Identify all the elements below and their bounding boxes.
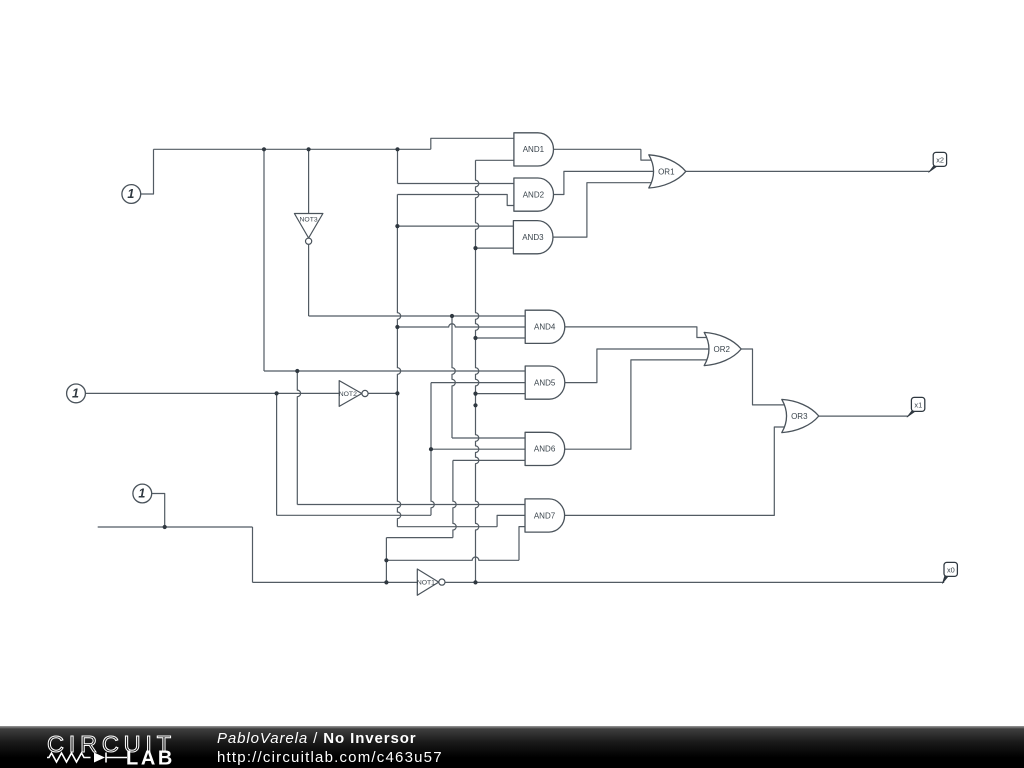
junction dot AND7-bot tap at (386.4,560.3) [384,558,388,562]
OR gate OR2 [704,332,741,365]
svg-text:x0: x0 [947,565,955,574]
svg-text:LAB: LAB [126,748,175,768]
footer bar [0,726,1024,768]
wire input3 rail y=527 [98,526,253,528]
wire top rail y=149 input1 [154,148,431,150]
junction dot NOT3 branch at (452,316) [450,314,454,318]
wire OR3 output to x1 [819,415,908,417]
wire AND7 bottom input feed [519,527,525,561]
svg-text:AND6: AND6 [534,445,556,454]
wire AND7 top input feed y=504 [297,504,525,506]
wire AND3 output [553,183,655,237]
junction dot AND4-mid tap at (397.4,327) [395,325,399,329]
wire riser to AND1 top input [431,138,514,149]
junction dot AND7 tap at (297.3,371) [295,369,299,373]
wire input1 drop to AND2 top input [397,149,399,183]
wire NOT3 output drop [308,244,310,316]
wire input2 riser x=431 [431,383,434,516]
svg-text:NOT3: NOT3 [300,217,318,224]
wire input3 run y=560 [386,557,519,560]
svg-text:1: 1 [138,487,145,501]
junction dot AND4-bot tap at (475.5,338) [473,336,477,340]
wire AND3 bottom input feed [476,247,514,249]
output terminal x0 [942,562,957,583]
svg-text:NOT1: NOT1 [417,580,435,587]
wire input3 stub [152,494,165,528]
junction dot AND5-bot tap at (475.5,393.6) [473,392,477,396]
svg-text:1: 1 [127,187,134,201]
resistor + diode glyph [47,753,127,763]
wire NOT2 run to AND7 y=526 [397,526,497,528]
wire OR1 output to x2 [686,170,930,172]
junction dot NOT3 tap at (308.6,149.3) [307,147,311,151]
wire rail y=316 NOT3 out to AND4 top input [309,315,526,317]
wire NOT3 input drop [308,149,310,213]
junction dot input2 tap at (276.6,393.4) [275,391,279,395]
svg-text:AND4: AND4 [534,323,556,332]
wire AND3 top input feed [397,225,513,227]
wire AND6 top input feed [452,437,525,439]
output terminal x2 [929,152,947,172]
junction dot AND3-top tap at (397.4,226.1) [395,224,399,228]
svg-text:AND1: AND1 [523,145,545,154]
wire AND6 output [565,360,711,449]
wire AND2 bottom input feed [397,195,514,206]
AND gate AND2 [514,178,554,211]
logic input source V1 [122,185,141,204]
svg-text:OR2: OR2 [713,345,730,354]
wire AND4 middle input feed [397,324,525,327]
output terminal x1 [907,397,925,417]
svg-text:AND5: AND5 [534,378,556,387]
svg-text:x1: x1 [914,400,922,409]
inverter NOT2 [339,381,368,407]
AND gate AND1 [514,133,554,166]
svg-text:AND3: AND3 [522,233,544,242]
wire AND2 output [553,171,658,194]
wire AND5 middle input feed [431,382,525,384]
wire input2 line to NOT2 [85,392,339,394]
wire NOT3 branch x=452 down [452,316,455,438]
wire OR2 output to OR3 [741,349,788,405]
AND gate AND6 [525,432,565,465]
junction dot NOT1 output tap at (475.5,582.4) [473,580,477,584]
AND gate AND3 [513,221,553,254]
wire AND4 bottom input feed [476,337,526,339]
junction dot NOT2 output at (397.4,393.4) [395,391,399,395]
wire input3 run y=537 [386,537,453,539]
logic input source V2 [67,384,86,403]
inverter NOT1 [417,569,445,595]
inverter NOT3 [294,214,323,245]
wire input3 riser x=386 [385,538,387,583]
wire NOT2 output to bus [368,392,397,394]
junction dot AND6-mid tap at (431,449.2) [429,447,433,451]
svg-text:AND2: AND2 [523,190,545,199]
svg-text:OR1: OR1 [658,167,675,176]
wire AND7 output [564,427,788,515]
logic input source V3 [133,484,152,503]
wire AND1 bottom input feed [476,159,514,161]
wire AND7 middle input feed [497,515,525,526]
junction dot AND3-bot tap at (475.5,248.1) [473,246,477,250]
wire AND1 output [553,148,641,150]
wire AND2 top input feed [398,183,514,185]
wire NOT1 input line [253,581,418,583]
junction dot input3 NOT1 tap at (386.4,582.4) [384,580,388,584]
wire input3 riser x=453 [453,460,456,537]
wire input2 drop x=276 [276,393,278,515]
junction dot input3 tap at (164.7,527) [163,525,167,529]
wire AND1 to OR1 jog [641,149,656,160]
wire input1 drop x=297 to AND7 [297,371,300,505]
wire AND5 bottom input feed [476,393,526,395]
wire input2 run y=515 [277,514,431,516]
footer credits [217,730,443,768]
wire AND5 output [565,349,714,383]
wire AND6 middle input feed [431,448,525,450]
wire input3 drop x=252 [252,527,254,582]
svg-text:OR3: OR3 [791,412,808,421]
wire AND4 output [565,327,711,338]
junction dot AND2-top tap at (397.5,149.3) [395,147,399,151]
OR gate OR3 [782,399,819,432]
AND gate AND4 [525,310,565,343]
AND gate AND5 [525,366,565,399]
CircuitLab logo [30,726,220,768]
wire rail y=371 to AND5 top input [264,370,525,372]
wire input1 stub [141,149,154,194]
junction dot bus joint at (475.5,405.3) [473,403,477,407]
svg-text:AND7: AND7 [534,511,556,520]
junction dot input1 rail at (264,149.3) [262,147,266,151]
wire AND6 bottom input feed [453,459,525,461]
OR gate OR1 [649,155,686,188]
wire NOT1 output line to x0 [445,581,945,583]
wire NOT1 output bus x=475 [476,160,479,582]
svg-text:x2: x2 [936,155,944,164]
wire NOT2 output bus x=397 [397,195,400,527]
svg-text:NOT2: NOT2 [339,391,357,398]
wire branch x=264 input1 down [263,149,265,371]
AND gate AND7 [525,499,565,532]
svg-text:1: 1 [72,387,79,401]
